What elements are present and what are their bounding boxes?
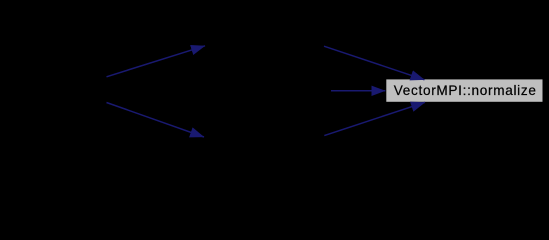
node VectorMPI::normalize (highlighted current node): [386, 79, 543, 102]
wire edge: middle-top to VectorMPI::normalize: [324, 46, 425, 80]
wire edge: caller-left to middle-top: [107, 46, 206, 77]
node middle-top (hidden black node): [205, 35, 324, 58]
wire edge: middle-bottom to VectorMPI::normalize: [324, 102, 425, 135]
node middle-bottom (hidden black node): [204, 124, 324, 147]
node middle-center (hidden black node): [205, 79, 331, 102]
wire edge: caller-left to middle-bottom: [107, 103, 205, 138]
svg-text:VectorMPI::normalize: VectorMPI::normalize: [394, 83, 537, 98]
wire edge: middle-center to VectorMPI::normalize: [331, 90, 385, 92]
node caller-left (hidden black node): [8, 79, 107, 102]
